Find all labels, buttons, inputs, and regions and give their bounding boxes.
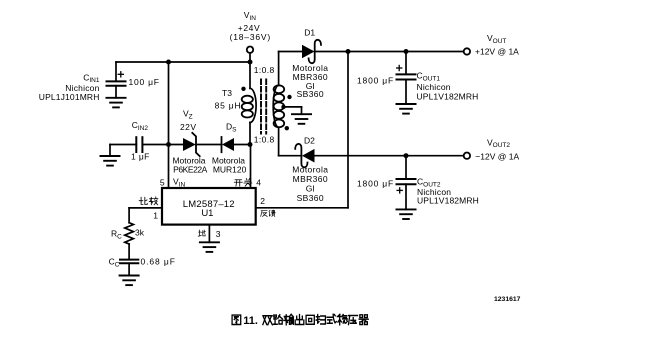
svg-text:1 μF: 1 μF	[131, 151, 150, 161]
svg-text:UPL1V182MRH: UPL1V182MRH	[417, 196, 479, 206]
svg-text:U1: U1	[201, 208, 213, 219]
svg-text:+12V @ 1A: +12V @ 1A	[475, 46, 519, 56]
svg-text:Motorola: Motorola	[292, 165, 328, 175]
svg-text:1800 μF: 1800 μF	[357, 75, 394, 85]
svg-text:MBR360: MBR360	[293, 174, 328, 184]
svg-text:1800 μF: 1800 μF	[357, 179, 394, 189]
svg-text:CIN2: CIN2	[132, 120, 149, 132]
svg-text:DS: DS	[226, 122, 237, 134]
svg-text:D2: D2	[304, 135, 315, 145]
svg-text:P6KE22A: P6KE22A	[173, 164, 207, 174]
svg-text:UPL1J101MRH: UPL1J101MRH	[39, 92, 100, 102]
svg-text:1:0.8: 1:0.8	[254, 135, 275, 145]
svg-text:100 μF: 100 μF	[129, 77, 160, 87]
svg-text:MUR120: MUR120	[213, 164, 247, 174]
svg-text:5: 5	[160, 177, 165, 187]
svg-text:(18–36V): (18–36V)	[230, 32, 271, 42]
svg-text:T3: T3	[222, 88, 232, 98]
svg-text:COUT1: COUT1	[417, 71, 441, 83]
svg-text:1:0.8: 1:0.8	[254, 65, 275, 75]
svg-text:VZ: VZ	[183, 109, 193, 121]
svg-text:2: 2	[260, 196, 265, 206]
svg-text:22V: 22V	[180, 122, 196, 132]
svg-text:CC: CC	[109, 257, 120, 269]
svg-text:Nichicon: Nichicon	[417, 82, 451, 92]
svg-text:11.: 11.	[243, 315, 258, 327]
svg-text:SB360: SB360	[297, 193, 324, 203]
svg-text:VOUT2: VOUT2	[487, 137, 510, 149]
svg-text:1: 1	[153, 210, 158, 220]
svg-text:0.68 μF: 0.68 μF	[141, 257, 176, 267]
svg-text:SB360: SB360	[297, 89, 324, 99]
svg-text:D1: D1	[304, 28, 315, 38]
svg-text:3k: 3k	[135, 228, 145, 238]
svg-text:−12V @ 1A: −12V @ 1A	[475, 152, 519, 162]
svg-text:RC: RC	[111, 229, 122, 241]
svg-text:4: 4	[256, 177, 261, 187]
svg-text:VOUT: VOUT	[487, 33, 506, 45]
svg-text:VIN: VIN	[173, 177, 185, 189]
svg-text:3: 3	[216, 229, 221, 239]
svg-text:VIN: VIN	[244, 10, 256, 22]
svg-text:UPL1V182MRH: UPL1V182MRH	[417, 91, 479, 101]
svg-text:85 μH: 85 μH	[215, 100, 242, 110]
svg-text:1231617: 1231617	[494, 296, 521, 303]
